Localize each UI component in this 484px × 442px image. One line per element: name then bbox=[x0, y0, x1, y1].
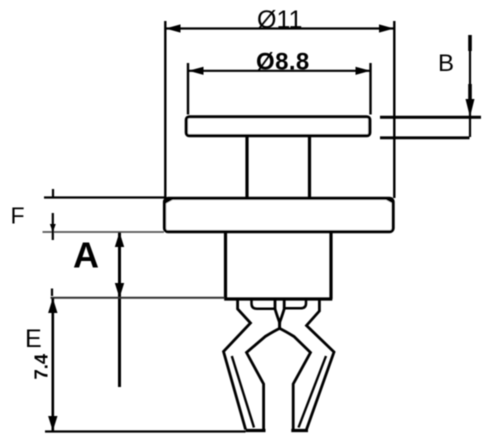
svg-text:A: A bbox=[73, 235, 99, 276]
dia11 left extension line bbox=[164, 21, 166, 198]
B arrow head bbox=[466, 99, 475, 117]
B dimension arrow line bbox=[469, 35, 471, 137]
left hook bbox=[252, 300, 276, 309]
left leg inner strip line bbox=[232, 356, 254, 428]
E dimension line bbox=[51, 298, 54, 431]
right foot bottom bbox=[291, 429, 308, 432]
skirt right line crossing to left branch bbox=[247, 300, 285, 431]
svg-text:Ø11: Ø11 bbox=[257, 6, 302, 34]
dia11 left arrow bbox=[166, 24, 181, 32]
left foot bottom bbox=[246, 429, 266, 432]
flange top-right corner wedge bbox=[382, 198, 393, 204]
B bottom extension line (cap bottom level) bbox=[380, 136, 470, 139]
F arrow head bbox=[50, 224, 56, 232]
F arrow stem bbox=[52, 213, 54, 240]
skirt left line crossing to right branch bbox=[275, 300, 311, 431]
flange top-left corner wedge bbox=[166, 198, 177, 204]
E up arrow bbox=[48, 298, 57, 313]
stem left wall bbox=[245, 137, 248, 198]
E down arrow bbox=[48, 416, 57, 431]
right leg inner strip line bbox=[299, 356, 327, 428]
E top tick bbox=[51, 289, 53, 297]
dia8.8 left extension line bbox=[187, 63, 189, 115]
left leg outer barb edge bbox=[224, 300, 251, 430]
dia11 dimension line bbox=[166, 27, 394, 29]
F top tick bbox=[52, 189, 54, 198]
stem right wall bbox=[308, 137, 311, 198]
B top extension line (cap top level) bbox=[380, 116, 481, 119]
svg-text:E: E bbox=[25, 325, 42, 353]
flange bbox=[165, 198, 394, 231]
A down arrow bbox=[115, 283, 124, 298]
svg-text:B: B bbox=[438, 50, 454, 77]
dia8.8 dimension line bbox=[189, 70, 370, 72]
F top extension line bbox=[44, 196, 165, 198]
right leg outer barb edge bbox=[307, 300, 335, 430]
right hook bbox=[284, 300, 306, 309]
dia11 right arrow bbox=[379, 24, 394, 32]
A dimension line bbox=[118, 233, 121, 388]
shank body bbox=[224, 233, 332, 299]
svg-text:7.4: 7.4 bbox=[31, 353, 52, 379]
dia8.8 right arrow bbox=[356, 67, 371, 75]
B line top thick dash bbox=[468, 35, 472, 51]
bottom reference line (foot bottom level) bbox=[45, 430, 246, 432]
dia8.8 left arrow bbox=[189, 67, 204, 75]
dia11 right extension line bbox=[393, 21, 395, 198]
dia8.8 right extension line bbox=[369, 63, 371, 115]
A up arrow bbox=[115, 232, 124, 247]
svg-text:Ø8.8: Ø8.8 bbox=[256, 49, 310, 76]
B line mid thick dash bbox=[468, 84, 472, 99]
cap (top disc) bbox=[186, 117, 369, 136]
svg-text:F: F bbox=[11, 203, 25, 229]
F bottom extension line bbox=[43, 231, 165, 233]
A bottom reference line (shank bottom level) bbox=[51, 297, 225, 299]
